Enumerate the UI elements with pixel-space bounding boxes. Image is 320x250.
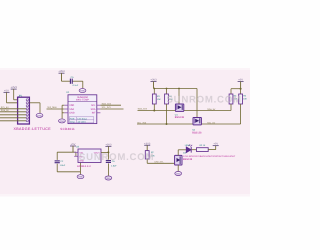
svg-text:SUNROM.COM: SUNROM.COM	[167, 94, 242, 105]
svg-text:BSS138: BSS138	[175, 116, 184, 119]
svg-text:+5V: +5V	[213, 143, 218, 146]
svg-text:0.1uF: 0.1uF	[73, 84, 79, 87]
svg-text:LED_CTL: LED_CTL	[155, 161, 164, 164]
svg-text:Q2: Q2	[192, 129, 195, 132]
svg-text:R6: R6	[243, 95, 246, 98]
svg-text:SDA_5V: SDA_5V	[1, 109, 9, 112]
svg-text:SCD4011: SCD4011	[60, 127, 75, 131]
svg-text:GND: GND	[78, 176, 83, 179]
svg-text:+3V3: +3V3	[144, 142, 150, 145]
svg-text:SDA: SDA	[91, 108, 96, 111]
svg-text:SCL_5V: SCL_5V	[1, 106, 9, 109]
svg-text:C5: C5	[71, 76, 74, 79]
svg-text:AP2112-3.3: AP2112-3.3	[77, 165, 91, 168]
svg-text:3.3V @4uA: 3.3V @4uA	[77, 118, 87, 120]
svg-text:1=V1.3/GOOD?=BACKLIGHT/STAT/AC: 1=V1.3/GOOD?=BACKLIGHT/STAT/ACT/LED/LIGH…	[183, 155, 235, 158]
svg-text:JP1: JP1	[18, 95, 22, 98]
svg-text:Q1: Q1	[175, 114, 178, 117]
svg-text:SDA_5V: SDA_5V	[207, 108, 215, 111]
svg-text:U1: U1	[66, 91, 69, 94]
svg-text:3V3_SEN: 3V3_SEN	[47, 106, 56, 109]
svg-text:INT: INT	[92, 111, 96, 114]
svg-text:+3V3: +3V3	[105, 143, 111, 146]
svg-text:LED1: LED1	[185, 144, 191, 147]
svg-text:VDD: VDD	[69, 104, 74, 107]
svg-text:SDA_3V3: SDA_3V3	[138, 108, 147, 111]
svg-text:SCL_3V3: SCL_3V3	[102, 106, 111, 109]
svg-text:10K: 10K	[157, 98, 161, 101]
svg-text:BSS138: BSS138	[192, 132, 201, 135]
svg-text:+3V3: +3V3	[58, 70, 64, 73]
svg-text:SCL_3V3: SCL_3V3	[137, 121, 146, 124]
svg-text:SDA: SDA	[69, 108, 74, 111]
svg-text:+5V: +5V	[238, 79, 243, 82]
svg-text:GND: GND	[176, 172, 181, 175]
svg-text:GND: GND	[106, 177, 111, 180]
svg-text:+3V3: +3V3	[150, 79, 156, 82]
svg-text:10K: 10K	[243, 98, 247, 101]
svg-text:SDA_3V3: SDA_3V3	[102, 102, 111, 105]
svg-text:+5V: +5V	[4, 89, 9, 92]
svg-text:+5V: +5V	[71, 143, 76, 146]
svg-text:4901-TEMP: 4901-TEMP	[76, 99, 89, 102]
svg-text:R3: R3	[157, 95, 160, 98]
svg-text:BSS138: BSS138	[183, 158, 192, 161]
svg-text:GND: GND	[59, 120, 64, 123]
svg-text:GND: GND	[69, 111, 74, 114]
svg-text:C2: C2	[60, 160, 63, 163]
svg-text:SCL_5V: SCL_5V	[207, 121, 215, 124]
svg-text:SCL: SCL	[91, 104, 96, 107]
svg-text:1.0uF: 1.0uF	[60, 164, 66, 167]
svg-text:XBADGE-LETTUCE: XBADGE-LETTUCE	[14, 127, 51, 131]
svg-text:PWR:: PWR:	[70, 118, 75, 120]
svg-text:Q3: Q3	[183, 151, 186, 154]
svg-text:U3: U3	[76, 145, 79, 148]
svg-text:SUNROM: SUNROM	[77, 96, 88, 99]
svg-text:GND: GND	[80, 90, 85, 93]
svg-text:-40~125'C: -40~125'C	[77, 121, 86, 123]
svg-text:GND: GND	[37, 114, 42, 117]
svg-text:R3 1K: R3 1K	[200, 144, 206, 147]
svg-text:+3V3: +3V3	[11, 86, 17, 89]
svg-text:SUNROM.COM: SUNROM.COM	[79, 152, 154, 163]
svg-text:1.0uF: 1.0uF	[111, 164, 117, 167]
svg-text:Temp:: Temp:	[70, 121, 75, 123]
